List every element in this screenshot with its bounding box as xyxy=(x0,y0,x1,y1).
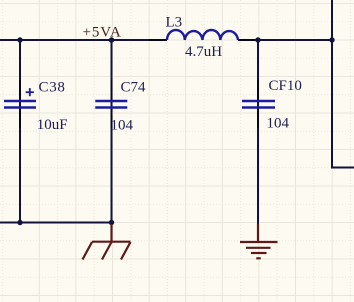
svg-text:4.7uH: 4.7uH xyxy=(185,44,222,60)
svg-text:L3: L3 xyxy=(166,15,183,31)
svg-text:104: 104 xyxy=(111,118,134,134)
svg-text:10uF: 10uF xyxy=(37,117,68,133)
svg-text:CF10: CF10 xyxy=(269,78,302,94)
svg-text:+5VA: +5VA xyxy=(83,25,122,41)
svg-text:104: 104 xyxy=(267,116,290,132)
svg-text:C38: C38 xyxy=(39,80,66,96)
svg-text:C74: C74 xyxy=(121,80,147,96)
